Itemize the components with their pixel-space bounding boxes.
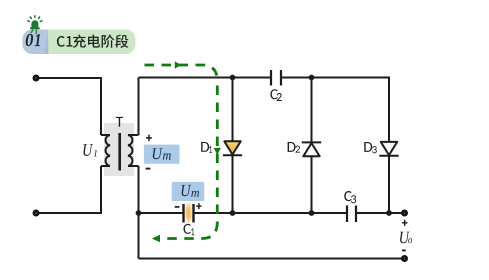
label D2 — [288, 142, 296, 152]
output terminal - — [402, 256, 406, 260]
wire: top rail right of C2, corner down to D3 — [281, 78, 389, 214]
label C1 — [184, 224, 191, 234]
wire: bottom-left from input - terminal to primary bottom — [36, 166, 101, 213]
label + (C1 right) — [196, 203, 201, 209]
wire: top-left from input + terminal to primary top — [36, 78, 101, 135]
label Um (secondary) blue box — [144, 145, 180, 164]
transformer T body — [104, 123, 134, 176]
badge number 01 — [26, 34, 40, 46]
capacitor C1 highlight glow — [184, 199, 194, 227]
label + (output) — [402, 220, 408, 226]
current arrow down (through D1 side) — [214, 148, 221, 155]
current arrow left (bottom) — [152, 235, 160, 243]
input terminal bottom — [34, 211, 38, 215]
current path (green dashed, top run) — [145, 65, 218, 239]
label D3 — [364, 142, 372, 152]
transformer primary winding — [101, 135, 110, 166]
title text C1充电阶段 — [57, 36, 65, 47]
label - (secondary bottom) — [146, 168, 151, 170]
label D1 — [201, 142, 209, 152]
label U1 — [83, 144, 93, 156]
transformer secondary winding — [128, 135, 139, 166]
label Uo — [400, 232, 410, 244]
label Um (C1) blue box — [172, 182, 204, 201]
capacitor C2 — [271, 70, 281, 86]
capacitor C3 — [347, 206, 356, 223]
label C3 — [344, 191, 351, 201]
output terminal + — [402, 211, 406, 215]
wire: top rail left of C2 — [139, 77, 272, 79]
label - (output) — [402, 249, 406, 251]
input terminal top — [34, 76, 38, 80]
current path (green dashed, bottom run) — [161, 222, 217, 239]
junction node (D1 top) — [230, 75, 236, 81]
wire: secondary top to top rail — [138, 78, 140, 136]
title badge number section (blue) — [23, 30, 48, 55]
current path (green dashed, down run) — [216, 81, 219, 224]
junction node (D1 bottom) — [230, 210, 236, 216]
label T — [116, 117, 123, 127]
transformer core — [118, 133, 121, 171]
diode D2 (points up) — [302, 142, 321, 156]
label - (C1 left) — [175, 206, 180, 208]
diode D3 (points down) — [379, 142, 398, 156]
diode D1 (highlighted, conducting) — [223, 141, 242, 155]
wire: C3 to output + terminal — [356, 212, 405, 214]
junction node (D2 bottom) — [309, 210, 315, 216]
label + (secondary top) — [146, 135, 152, 141]
junction node (D3 bottom) — [386, 210, 392, 216]
label C2 — [270, 89, 277, 99]
wire: C1 row middle segment to C3 — [194, 212, 348, 214]
junction node (D2 top) — [309, 75, 315, 81]
wire: D2 branch — [311, 78, 313, 214]
wire: bottom rail to output - terminal — [139, 258, 405, 260]
wire: C1 row left segment — [139, 212, 184, 214]
junction node (secondary / C1 row) — [136, 210, 142, 216]
capacitor C1 — [184, 204, 194, 223]
wire: secondary bottom down to bottom rail — [138, 166, 140, 259]
LED icon — [28, 16, 42, 35]
current arrow right (top) — [175, 61, 181, 68]
title badge pill (green) — [23, 30, 136, 55]
wire: D1 branch — [232, 78, 234, 214]
